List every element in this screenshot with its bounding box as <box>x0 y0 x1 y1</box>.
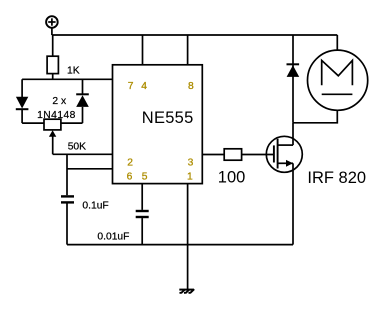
wire drain up to flyback/motor junction <box>292 123 294 145</box>
wire pin 5 to capacitor C2 <box>141 184 143 210</box>
diode D2 1N4148 (pointing up) <box>76 94 89 107</box>
wire right diode branch top <box>82 79 84 94</box>
wire motor bottom stub <box>293 110 337 123</box>
IC U1 NE555 body <box>113 65 203 184</box>
svg-text:1K: 1K <box>67 66 80 77</box>
wire power stem to top rail <box>51 28 53 35</box>
svg-text:0.1uF: 0.1uF <box>82 200 108 211</box>
svg-text:8: 8 <box>188 81 194 92</box>
svg-text:7: 7 <box>128 81 134 92</box>
svg-text:3: 3 <box>188 158 194 169</box>
wire pin 6 <box>67 168 113 170</box>
svg-text:IRF 820: IRF 820 <box>307 169 366 187</box>
svg-text:0.01uF: 0.01uF <box>97 231 129 242</box>
wire left diode branch top <box>21 79 23 97</box>
wire source to bottom rail <box>292 163 294 244</box>
capacitor C1 0.1uF <box>61 196 74 202</box>
wire left diode branch bottom <box>21 109 23 123</box>
wire flyback diode branch <box>292 35 294 123</box>
svg-text:6: 6 <box>127 171 133 182</box>
wire wiper to pin 2 <box>53 153 113 155</box>
motor M1 <box>308 50 368 110</box>
svg-text:2 x: 2 x <box>52 96 67 107</box>
wire pin 4 to supply rail <box>142 35 144 65</box>
wire supply to resistor R1 <box>52 35 54 56</box>
resistor R2 100 <box>224 149 241 160</box>
svg-text:NE555: NE555 <box>142 109 194 127</box>
wire pin 8 to supply rail <box>187 35 189 65</box>
svg-text:1: 1 <box>187 171 193 182</box>
resistor R1 1K <box>47 56 58 73</box>
wire pin 1 to ground <box>187 184 189 290</box>
wire junction down to capacitor C1 <box>66 154 68 195</box>
diode D1 1N4148 (pointing down) <box>16 97 29 109</box>
svg-text:2: 2 <box>127 158 133 169</box>
svg-text:50K: 50K <box>68 141 86 152</box>
power supply positive terminal <box>46 16 58 28</box>
wire pin 3 to resistor R2 <box>202 154 224 156</box>
wire resistor R1 bottom <box>52 74 54 80</box>
wire resistor R2 to gate <box>242 154 274 156</box>
ground <box>179 289 194 293</box>
wire capacitor C2 to bottom rail <box>141 218 143 245</box>
svg-text:4: 4 <box>141 81 147 92</box>
wire bottom ground rail <box>67 244 293 246</box>
wire diode bottom rail <box>22 122 82 124</box>
potentiometer R3 50K body <box>44 119 61 130</box>
svg-text:100: 100 <box>218 169 246 187</box>
wire right diode branch bottom <box>82 107 84 123</box>
wire motor top stub <box>336 35 338 50</box>
transistor Q1 IRF820 (N-MOSFET) <box>266 136 302 172</box>
diode D3 flyback (pointing up) <box>287 64 300 77</box>
capacitor C2 0.01uF <box>136 211 149 217</box>
potentiometer wiper arrow <box>49 130 56 154</box>
wire top supply rail <box>52 34 337 36</box>
wire capacitor C1 to bottom rail <box>66 204 68 245</box>
svg-text:5: 5 <box>142 171 148 182</box>
wire pin 7 rail <box>22 78 112 80</box>
